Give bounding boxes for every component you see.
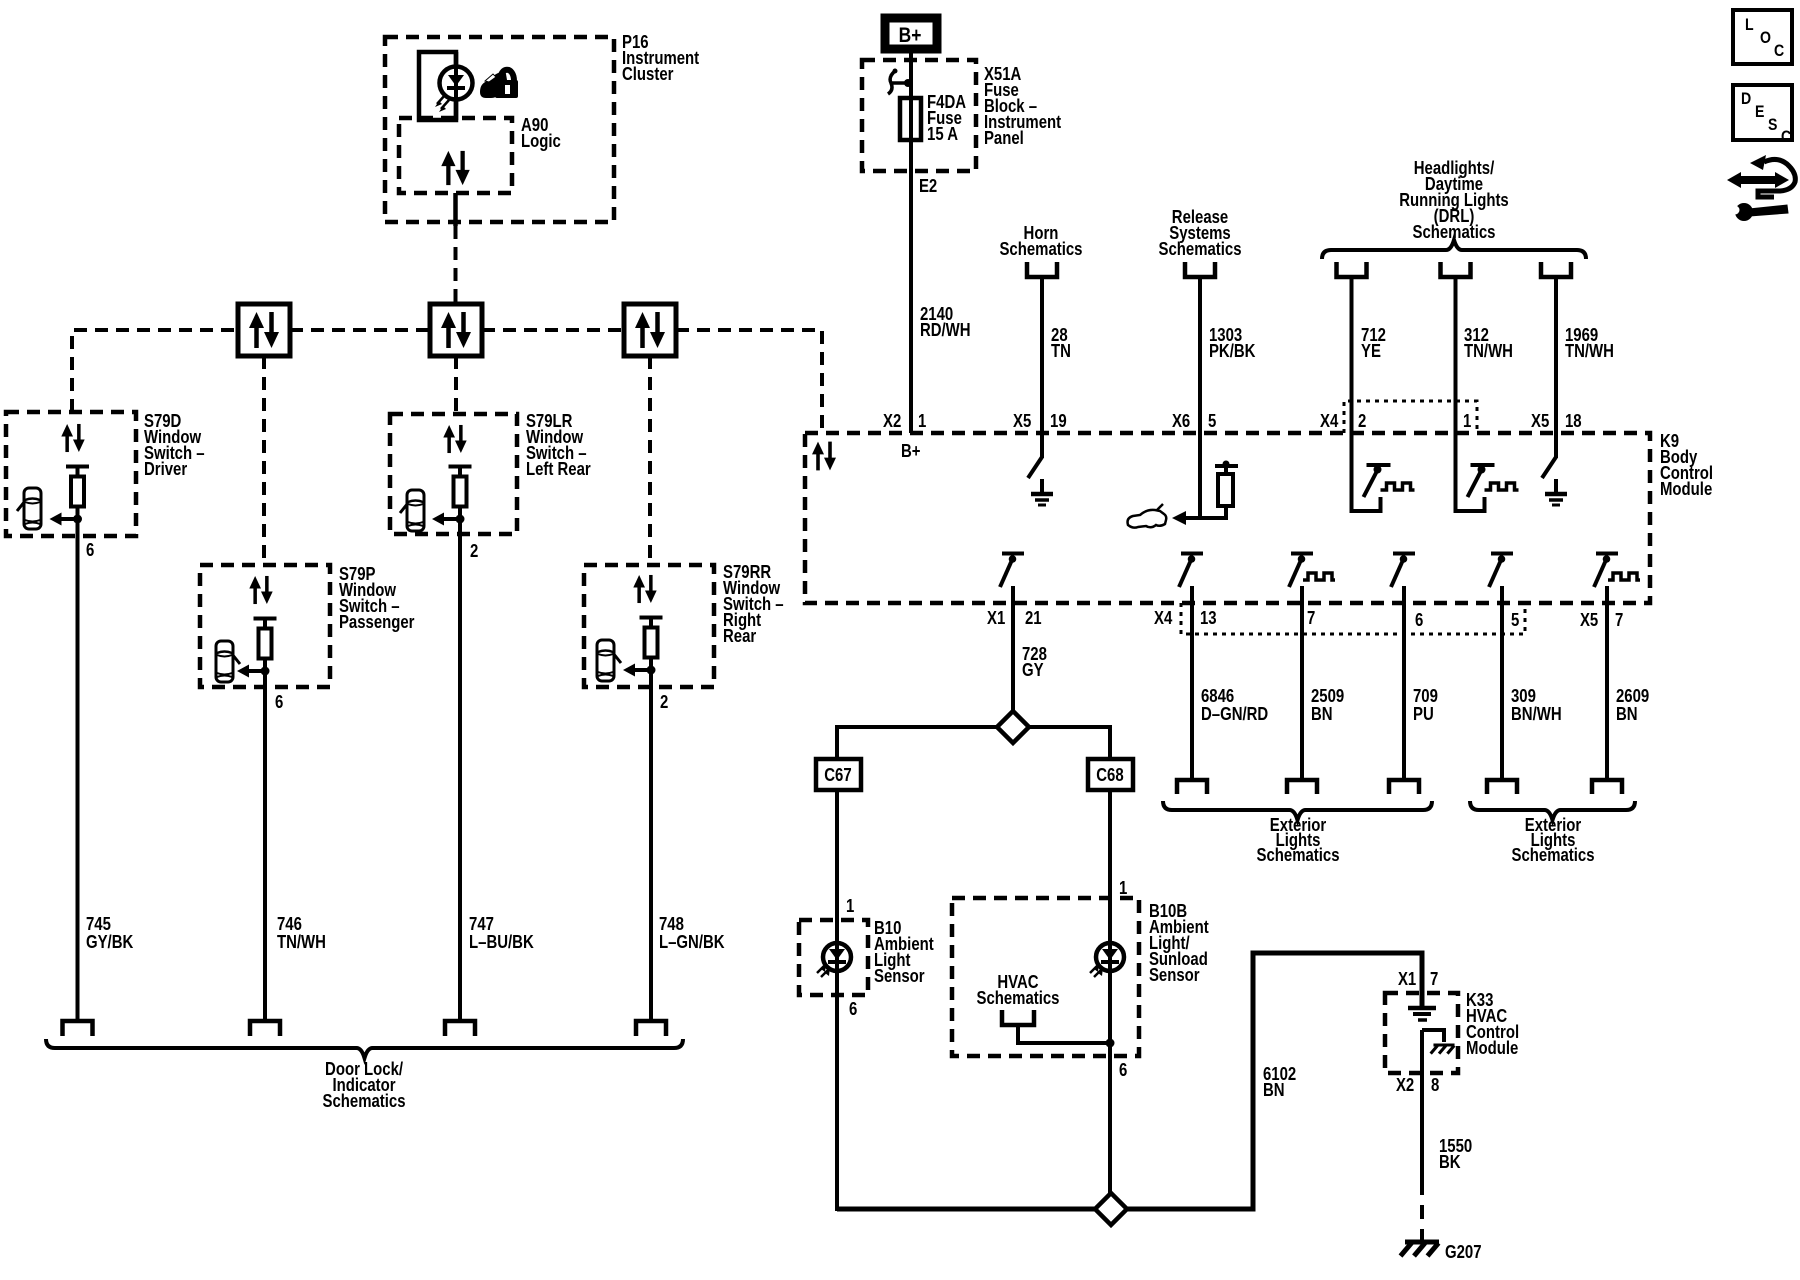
svg-text:2: 2 xyxy=(660,692,668,713)
svg-text:Cluster: Cluster xyxy=(622,64,674,85)
svg-text:6: 6 xyxy=(849,999,857,1020)
connector X4 dotted group bottom xyxy=(1181,603,1525,634)
svg-text:X2: X2 xyxy=(883,411,901,432)
bottom row drivers xyxy=(1002,552,1024,556)
svg-text:GY/BK: GY/BK xyxy=(86,932,133,953)
ground rail xyxy=(837,1207,1096,1212)
svg-text:X2: X2 xyxy=(1396,1075,1414,1096)
svg-text:B+: B+ xyxy=(901,441,921,462)
svg-text:Schematics: Schematics xyxy=(323,1091,406,1112)
B10B Ambient Light Sunload Sensor xyxy=(952,898,1139,1056)
P16 Instrument Cluster box xyxy=(385,37,614,222)
svg-text:6: 6 xyxy=(275,692,283,713)
wire from A90 to cluster edge xyxy=(453,193,458,226)
wire 28 TN xyxy=(1040,277,1044,433)
svg-text:Rear: Rear xyxy=(723,626,757,647)
wire xyxy=(1108,790,1112,898)
wire 748 xyxy=(649,658,653,1021)
svg-text:BK: BK xyxy=(1439,1152,1461,1173)
svg-text:X5: X5 xyxy=(1580,610,1598,631)
svg-text:D: D xyxy=(1741,90,1751,108)
svg-text:L: L xyxy=(1745,16,1754,34)
wire 1303 PK/BK xyxy=(1198,277,1202,433)
svg-text:Module: Module xyxy=(1660,479,1712,500)
wire xyxy=(454,52,459,120)
exterior lights brace 1 xyxy=(1163,801,1432,820)
wire 1969 TN/WH xyxy=(1554,277,1558,433)
wire 709 PU xyxy=(1402,586,1406,780)
K9 Body Control Module box xyxy=(805,433,1650,603)
fuse clip xyxy=(888,71,895,94)
LOC link box xyxy=(1733,10,1792,64)
svg-text:Schematics: Schematics xyxy=(1512,845,1595,866)
splice diamond xyxy=(997,711,1029,743)
A90 Logic box xyxy=(399,118,512,193)
svg-text:5: 5 xyxy=(1208,411,1216,432)
wire 728 GY xyxy=(1011,586,1015,712)
svg-text:PU: PU xyxy=(1413,704,1434,725)
svg-text:7: 7 xyxy=(1430,969,1438,990)
dashed wire to switch link xyxy=(454,226,458,304)
door lock off-page terminals xyxy=(63,1021,93,1036)
svg-text:C68: C68 xyxy=(1096,765,1123,786)
svg-text:Sensor: Sensor xyxy=(874,966,925,987)
svg-text:Panel: Panel xyxy=(984,128,1024,149)
splice diamond xyxy=(1095,1193,1127,1225)
svg-text:X1: X1 xyxy=(987,608,1005,629)
wire 746 xyxy=(263,659,267,1021)
svg-text:X5: X5 xyxy=(1531,411,1549,432)
svg-text:TN: TN xyxy=(1051,341,1071,362)
DESC link box xyxy=(1733,85,1792,140)
chassis ground internal xyxy=(1422,1030,1444,1042)
svg-text:L–GN/BK: L–GN/BK xyxy=(659,932,725,953)
A90 up-down arrows xyxy=(446,165,450,185)
S79P Window Switch Passenger xyxy=(200,565,330,687)
svg-text:1: 1 xyxy=(918,411,926,432)
wire 745 xyxy=(76,507,80,1021)
wire X2-8 xyxy=(1420,1030,1424,1181)
wire 6846 D-GN/RD xyxy=(1190,586,1194,780)
wire to C67 xyxy=(837,727,997,759)
svg-text:13: 13 xyxy=(1200,608,1217,629)
connector C67 xyxy=(816,759,861,790)
wire xyxy=(835,790,839,920)
signal ground xyxy=(1408,1006,1436,1011)
wire xyxy=(909,48,913,433)
svg-text:15 A: 15 A xyxy=(927,124,958,145)
svg-text:Schematics: Schematics xyxy=(1257,845,1340,866)
wire 312 TN/WH xyxy=(1454,277,1458,433)
svg-text:Passenger: Passenger xyxy=(339,612,415,633)
DRL switch to ground xyxy=(1554,433,1558,458)
connector X4 dotted group top xyxy=(1344,401,1477,433)
svg-text:1: 1 xyxy=(1463,411,1471,432)
headlamp driver 1 xyxy=(1456,433,1485,511)
svg-text:2: 2 xyxy=(470,541,478,562)
indicator LED xyxy=(440,67,473,100)
connector C68 xyxy=(1088,759,1133,790)
svg-text:C67: C67 xyxy=(824,765,851,786)
svg-text:C: C xyxy=(1781,128,1791,146)
svg-text:1: 1 xyxy=(1119,878,1127,899)
wire HVAC to sensor xyxy=(1018,1025,1110,1043)
BCM data arrows xyxy=(816,454,820,471)
B10 Ambient Light Sensor xyxy=(799,920,868,995)
svg-text:Sensor: Sensor xyxy=(1149,965,1200,986)
svg-text:RD/WH: RD/WH xyxy=(920,320,971,341)
wire xyxy=(454,356,458,414)
wire 2509 BN xyxy=(1300,586,1304,780)
dashed interconnect bus xyxy=(72,330,238,412)
wire 6102 BN xyxy=(1126,953,1422,1209)
svg-text:2: 2 xyxy=(1358,411,1366,432)
svg-text:E2: E2 xyxy=(919,176,937,197)
svg-text:E: E xyxy=(1755,103,1764,121)
svg-text:7: 7 xyxy=(1307,608,1315,629)
svg-text:X6: X6 xyxy=(1172,411,1190,432)
svg-text:TN/WH: TN/WH xyxy=(1565,341,1614,362)
exterior lights brace 2 xyxy=(1470,801,1635,820)
svg-text:18: 18 xyxy=(1565,411,1582,432)
svg-text:X5: X5 xyxy=(1013,411,1031,432)
svg-text:B+: B+ xyxy=(899,25,922,48)
X51A fuse block box xyxy=(862,60,976,171)
svg-text:O: O xyxy=(1760,29,1771,47)
svg-text:1: 1 xyxy=(846,896,854,917)
headlamp driver X4-2 xyxy=(1352,433,1381,511)
window link box 3 xyxy=(624,304,676,356)
svg-text:7: 7 xyxy=(1615,610,1623,631)
wire 2609 BN xyxy=(1605,586,1609,780)
svg-text:TN/WH: TN/WH xyxy=(1464,341,1513,362)
svg-text:PK/BK: PK/BK xyxy=(1209,341,1256,362)
svg-text:Module: Module xyxy=(1466,1038,1518,1059)
wire 309 BN/WH xyxy=(1500,586,1504,780)
wire to C68 xyxy=(1029,727,1110,759)
lamp housing xyxy=(419,52,456,120)
svg-text:6: 6 xyxy=(1119,1060,1127,1081)
svg-text:BN: BN xyxy=(1263,1080,1285,1101)
fuse F4DA 15A xyxy=(900,98,921,140)
K33 HVAC Control Module xyxy=(1385,993,1458,1073)
svg-text:X4: X4 xyxy=(1320,411,1339,432)
svg-text:6: 6 xyxy=(1415,610,1423,631)
S79D Window Switch Driver xyxy=(6,412,136,536)
svg-text:Logic: Logic xyxy=(521,131,561,152)
svg-text:BN: BN xyxy=(1616,704,1638,725)
security car-lock icon xyxy=(481,70,518,98)
wire xyxy=(648,356,652,565)
wire xyxy=(262,356,266,565)
svg-text:8: 8 xyxy=(1431,1075,1439,1096)
svg-text:6: 6 xyxy=(86,540,94,561)
svg-text:X4: X4 xyxy=(1154,608,1173,629)
svg-text:YE: YE xyxy=(1361,341,1381,362)
trunk release driver xyxy=(1198,433,1202,520)
window link box 2 xyxy=(430,304,482,356)
svg-text:GY: GY xyxy=(1022,660,1044,681)
car trunk icon xyxy=(1128,510,1167,528)
svg-text:Left Rear: Left Rear xyxy=(526,459,591,480)
B+ battery feed xyxy=(885,18,937,49)
S79LR Window Switch Left Rear xyxy=(390,414,517,534)
svg-text:Driver: Driver xyxy=(144,459,188,480)
svg-text:X1: X1 xyxy=(1398,969,1416,990)
svg-text:Schematics: Schematics xyxy=(1159,239,1242,260)
wire to splice xyxy=(1108,1056,1112,1193)
ground G207 xyxy=(1405,1240,1439,1245)
svg-text:21: 21 xyxy=(1025,608,1042,629)
svg-text:L–BU/BK: L–BU/BK xyxy=(469,932,534,953)
door lock brace xyxy=(46,1039,683,1058)
svg-text:G207: G207 xyxy=(1445,1242,1482,1263)
wire to ground rail xyxy=(835,995,839,1211)
svg-text:Schematics: Schematics xyxy=(999,239,1082,260)
svg-text:TN/WH: TN/WH xyxy=(277,932,326,953)
svg-text:BN/WH: BN/WH xyxy=(1511,704,1562,725)
svg-text:BN: BN xyxy=(1311,704,1333,725)
wire 747 xyxy=(458,507,462,1021)
svg-text:D–GN/RD: D–GN/RD xyxy=(1201,704,1268,725)
svg-text:Schematics: Schematics xyxy=(976,988,1059,1009)
S79RR Window Switch Right Rear xyxy=(584,565,714,687)
wire 712 YE xyxy=(1350,277,1354,433)
svg-text:5: 5 xyxy=(1511,610,1519,631)
horn switch to ground xyxy=(1040,433,1044,458)
svg-text:C: C xyxy=(1774,42,1784,60)
diagnostic icon xyxy=(1727,155,1795,221)
window link box 1 xyxy=(238,304,290,356)
svg-text:S: S xyxy=(1768,116,1777,134)
svg-text:19: 19 xyxy=(1050,411,1067,432)
